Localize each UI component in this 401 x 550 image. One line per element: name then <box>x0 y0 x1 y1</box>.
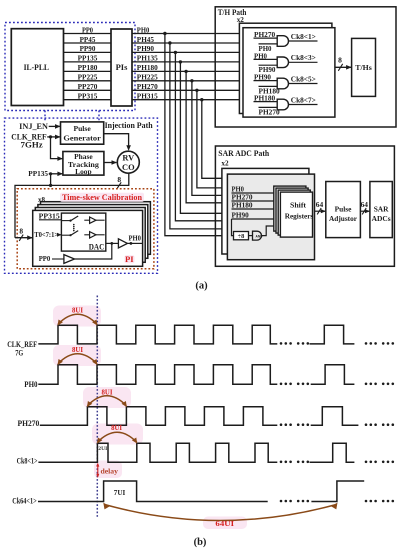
svg-text:Injection Path: Injection Path <box>105 121 154 130</box>
buffer PI output <box>118 239 127 248</box>
svg-text:PH315: PH315 <box>137 93 159 101</box>
wire PH90 vertical drop to SAR ADC path <box>175 52 227 220</box>
junction PP135 tap <box>49 172 52 175</box>
svg-text:PP90: PP90 <box>80 45 96 53</box>
wire PH225 from PIs to T/H path <box>132 80 240 82</box>
block SAR inner back copy (x2) <box>222 168 309 254</box>
wire Ck8&lt;5&gt; output <box>289 83 318 85</box>
wire PH90 from PIs to T/H path <box>132 51 240 53</box>
svg-text:PH270: PH270 <box>137 83 159 91</box>
svg-text:SAR ADC Path: SAR ADC Path <box>218 149 269 158</box>
block Pulse Generator <box>61 122 104 144</box>
pink halo CLK_REF 8UI <box>53 306 101 327</box>
block Phase Tracking Loop <box>63 152 104 176</box>
wire PH180 from PIs to T/H path <box>132 70 240 72</box>
and-gate enable <box>253 231 262 240</box>
wire Ck8&lt;1&gt; output <box>289 40 318 42</box>
svg-text:7G: 7G <box>15 349 23 358</box>
block PI stack x8 <box>41 202 151 255</box>
span arrow 8UI PH270 <box>87 396 126 406</box>
pink halo PH270 8UI <box>83 387 131 408</box>
svg-text:PH90: PH90 <box>137 45 155 53</box>
wire RVCO output 8-phase bus <box>15 173 129 238</box>
svg-text:64: 64 <box>361 200 369 209</box>
wire PH315 vertical drop to SAR ADC path <box>202 100 222 179</box>
svg-text:64: 64 <box>316 200 324 209</box>
svg-text:PIs: PIs <box>116 62 129 72</box>
svg-text:Registers: Registers <box>285 212 314 220</box>
wire CLK_REF branch to Phase Tracking Loop <box>51 137 63 159</box>
pink halo PI <box>125 255 135 263</box>
svg-text:PH0: PH0 <box>232 186 245 194</box>
wire PH225 vertical drop to SAR ADC path <box>192 81 222 196</box>
svg-text:PP0: PP0 <box>82 26 94 34</box>
junction node PH315 <box>200 98 203 101</box>
wire PH0 output of PI <box>127 242 142 244</box>
ellipsis dots CLK_REF <box>280 342 283 345</box>
switch S1 <box>69 220 71 222</box>
svg-text:Pulse: Pulse <box>335 205 353 214</box>
block SAR ADCs <box>370 182 392 238</box>
svg-text:PH45: PH45 <box>137 36 155 44</box>
wire PP135 IL-PLL to PIs <box>64 61 112 63</box>
switch S2 <box>69 234 71 236</box>
svg-text:PP135: PP135 <box>78 55 98 63</box>
wire Ck8&lt;3&gt; output <box>289 61 318 63</box>
dashed container box injection path section <box>5 118 158 273</box>
wire PP135 to Phase Tracking Loop <box>49 173 63 175</box>
junction phase bus PP135 tap <box>49 184 52 187</box>
pink halo delay <box>94 461 122 479</box>
svg-text:Ck64<1>: Ck64<1> <box>12 496 37 505</box>
svg-text:8: 8 <box>338 56 342 65</box>
block T/Hs <box>352 38 376 96</box>
wire PH0 from PIs to T/H path <box>132 33 240 35</box>
wire Phase Tracking Loop to RVCO <box>104 162 116 164</box>
switch S2 wire stub <box>61 234 70 236</box>
svg-text:(a): (a) <box>195 281 208 292</box>
svg-text:PH225: PH225 <box>137 74 159 82</box>
oscillator RVCO U3 <box>117 151 139 173</box>
svg-text:Loop: Loop <box>75 167 91 176</box>
svg-text:PH180: PH180 <box>232 202 254 210</box>
span arrow 64UI <box>105 505 337 521</box>
wire PH90 tap to divider <box>232 219 234 236</box>
span arrow 8UI Ck8 <box>97 432 136 442</box>
junction node PH90 <box>174 51 177 54</box>
dashed box Time-skew Calibration <box>17 189 154 269</box>
span arrow 8UI CLK_REF <box>58 314 97 324</box>
junction node PH225 <box>190 79 193 82</box>
svg-text:8: 8 <box>117 175 121 184</box>
svg-text:PH0: PH0 <box>137 26 150 34</box>
wire PH45 vertical drop to SAR ADC path <box>170 43 228 229</box>
svg-text:8: 8 <box>19 226 23 235</box>
wire PP0 IL-PLL to PIs <box>64 33 112 35</box>
waveform Ck8<1> <box>38 443 277 462</box>
svg-text:Generator: Generator <box>63 133 101 142</box>
wire PH135 from PIs to T/H path <box>132 61 240 63</box>
wire 8-bus into PI <box>15 237 32 239</box>
svg-text:T0<7:1>: T0<7:1> <box>34 232 58 239</box>
junction CLK_REF branch <box>49 135 52 138</box>
junction node PH135 <box>179 60 182 63</box>
wire 64 bus to SAR ADCs <box>360 210 369 212</box>
span arrow 8UI PH0 <box>58 354 97 364</box>
pink halo 64UI <box>203 517 247 530</box>
wire CLK_REF to Pulse Generator <box>47 136 60 138</box>
svg-text:CO: CO <box>122 163 135 172</box>
wire PP90 IL-PLL to PIs <box>64 51 112 53</box>
block Pulse Adjustor <box>326 182 361 238</box>
pink halo PH0 8UI <box>53 345 101 366</box>
svg-text:PH180: PH180 <box>137 64 159 72</box>
wire PH270 into shift registers <box>232 200 274 202</box>
svg-text:8UI: 8UI <box>111 424 122 432</box>
delay marker arrow <box>97 464 99 477</box>
svg-text:PH0: PH0 <box>129 234 142 242</box>
block divider /8 <box>234 232 249 240</box>
wire 64 bus to Pulse Adjustor <box>315 210 326 212</box>
wire PH315 from PIs to T/H path <box>132 99 240 101</box>
block SAR ADC Path container <box>215 146 394 266</box>
svg-text:Pulse: Pulse <box>73 124 91 133</box>
svg-text:PP315: PP315 <box>78 93 98 101</box>
wire PH180 vertical drop to SAR ADC path <box>186 71 222 202</box>
dots ellipsis switches <box>73 224 75 226</box>
buffer B2 <box>84 234 89 236</box>
wire DAC output to PI buffer <box>106 242 119 244</box>
svg-text:x2: x2 <box>221 160 229 168</box>
dashed connector between containers right <box>98 111 100 121</box>
waveform CLK_REF 7G <box>38 325 277 344</box>
block PIs U2 <box>111 29 132 106</box>
svg-text:÷8: ÷8 <box>238 233 245 240</box>
block SAR inner front copy <box>227 174 314 260</box>
ellipsis dots Ck64 <box>280 500 283 503</box>
svg-text:PP135: PP135 <box>28 169 48 178</box>
svg-text:PI: PI <box>125 254 134 264</box>
svg-text:Shift: Shift <box>290 202 307 210</box>
wire PH0 into shift registers <box>232 192 274 194</box>
ellipsis dots Ck8 <box>280 461 283 464</box>
svg-text:SAR: SAR <box>374 205 389 214</box>
svg-text:DAC: DAC <box>89 243 105 252</box>
svg-text:PP180: PP180 <box>78 64 98 72</box>
ellipsis dots PH0 <box>280 383 283 386</box>
svg-text:T/Hs: T/Hs <box>355 63 371 72</box>
block T/H Path container <box>215 7 396 127</box>
svg-text:(b): (b) <box>194 537 207 548</box>
block IL-PLL U1 <box>11 29 63 106</box>
wire PP225 IL-PLL to PIs <box>64 80 112 82</box>
junction node PH45 <box>168 41 171 44</box>
svg-text:PH270: PH270 <box>18 419 40 428</box>
svg-text:PP0: PP0 <box>39 255 51 263</box>
svg-text:8UI: 8UI <box>72 306 83 314</box>
timebase dashed cursor line <box>96 296 98 518</box>
svg-text:RV: RV <box>122 154 134 163</box>
svg-text:PH0: PH0 <box>24 380 37 389</box>
wire PH90 into shift registers <box>232 218 274 220</box>
waveform PH0 <box>38 365 277 385</box>
svg-text:Ck8<5>: Ck8<5> <box>291 75 316 83</box>
wire PP180 IL-PLL to PIs <box>64 70 112 72</box>
svg-text:PH90: PH90 <box>232 212 250 220</box>
svg-text:2UI: 2UI <box>98 446 107 452</box>
svg-text:7GHz: 7GHz <box>21 141 44 150</box>
wire PH270 from PIs to T/H path <box>132 89 240 91</box>
svg-text:PP45: PP45 <box>80 36 96 44</box>
svg-text:8UI: 8UI <box>102 388 113 396</box>
wire PP45 IL-PLL to PIs <box>64 42 112 44</box>
block switch/DAC box <box>61 213 105 251</box>
block Shift Registers stack <box>274 186 306 231</box>
junction node PH270 <box>195 89 198 92</box>
svg-text:Time-skew Calibration: Time-skew Calibration <box>62 193 142 202</box>
dashed container box IL-PLL/PIs section <box>5 23 135 111</box>
wire divider to AND gate <box>249 235 253 237</box>
junction PP0/DAC <box>110 242 113 245</box>
waveform PH270 <box>40 407 277 425</box>
svg-text:Adjustor: Adjustor <box>329 214 358 223</box>
junction node PH0 <box>163 32 166 35</box>
block T/H inner back copy (x2) <box>239 23 332 113</box>
wire Pulse Generator to RVCO <box>104 134 129 150</box>
svg-text:Ck8<3>: Ck8<3> <box>291 54 316 62</box>
wire PH180 into shift registers <box>232 208 274 210</box>
wire PH270 vertical drop to SAR ADC path <box>197 90 222 188</box>
ellipsis dots PH270 <box>280 423 283 426</box>
dashed connector between containers left <box>44 111 46 121</box>
svg-text:PP270: PP270 <box>78 83 98 91</box>
pink halo Ck8 8UI <box>92 424 143 445</box>
svg-text:8UI: 8UI <box>72 346 83 354</box>
switch S1 wire stub <box>61 220 70 222</box>
wire PP135 tap to phase bus <box>50 174 52 186</box>
svg-text:Ck8<7>: Ck8<7> <box>291 96 316 104</box>
svg-text:7UI: 7UI <box>114 488 126 497</box>
wire AND output to shift registers <box>262 226 274 236</box>
svg-text:IL-PLL: IL-PLL <box>24 63 49 72</box>
wire PH0 vertical drop to SAR ADC path <box>165 34 228 236</box>
wire PP0 buffer to DAC output node <box>75 243 112 259</box>
svg-text:PH135: PH135 <box>137 55 159 63</box>
svg-text:Ck8<1>: Ck8<1> <box>291 33 316 41</box>
wire PH135 vertical drop to SAR ADC path <box>180 62 227 213</box>
wire PH45 from PIs to T/H path <box>132 42 240 44</box>
waveform Ck64<1> <box>38 481 268 502</box>
svg-text:x8: x8 <box>38 196 46 204</box>
wire PP315 IL-PLL to PIs <box>64 99 112 101</box>
svg-text:PH270: PH270 <box>232 194 254 202</box>
junction node PH180 <box>184 70 187 73</box>
svg-text:64UI: 64UI <box>215 520 234 528</box>
svg-text:INJ_EN: INJ_EN <box>19 122 48 131</box>
buffer B1 <box>84 219 89 221</box>
slash 8-bus marker near RVCO <box>117 182 121 188</box>
wire Ck8&lt;7&gt; output <box>289 104 318 106</box>
svg-text:delay: delay <box>101 466 119 475</box>
wire 8-phase bus to T/Hs <box>335 66 351 68</box>
svg-text:PP225: PP225 <box>78 74 98 82</box>
buffer PP0 <box>64 255 75 264</box>
block T/H inner front copy <box>243 28 335 117</box>
pink halo Time-skew title <box>60 193 144 202</box>
wire PP270 IL-PLL to PIs <box>64 89 112 91</box>
svg-text:ADCs: ADCs <box>372 214 391 223</box>
svg-text:Ck8<1>: Ck8<1> <box>17 457 38 466</box>
